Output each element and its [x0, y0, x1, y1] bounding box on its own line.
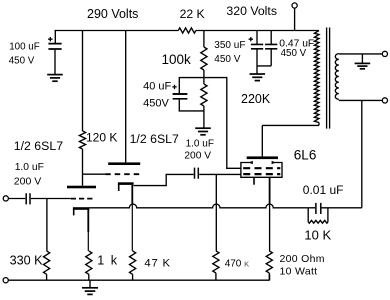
- ground on secondary: [355, 54, 371, 69]
- triode V1a cathode: [73, 207, 90, 215]
- svg-text:1/2 6SL7: 1/2 6SL7: [130, 132, 179, 146]
- wire T1 primary to V2 plate: [262, 124, 319, 126]
- svg-text:450 V: 450 V: [9, 56, 35, 67]
- capacitor C6 350uF 450V: [214, 31, 263, 66]
- resistor 470K (6L6 grid leak): [213, 174, 249, 280]
- svg-text:100 uF: 100 uF: [9, 42, 40, 53]
- terminal speaker -: [382, 98, 387, 103]
- terminal B+ input: [292, 3, 297, 31]
- wire feedback to V1a cathode (with hops): [89, 204, 308, 208]
- svg-text:1 k: 1 k: [97, 254, 118, 268]
- svg-text:330 K: 330 K: [10, 254, 44, 268]
- wire input to C2: [8, 198, 25, 200]
- beam tube V2 cathode stub: [253, 177, 255, 184]
- triode V1a plate: [67, 186, 96, 189]
- svg-text:1/2 6SL7: 1/2 6SL7: [14, 139, 63, 153]
- terminal speaker +: [382, 51, 387, 56]
- wire screen feed to 6L6: [204, 78, 241, 169]
- svg-text:40 uF: 40 uF: [143, 80, 171, 92]
- svg-text:22 K: 22 K: [180, 7, 205, 21]
- node label 290 Volts: [87, 7, 138, 21]
- svg-text:320 Volts: 320 Volts: [226, 4, 277, 18]
- svg-text:1.0 uF: 1.0 uF: [186, 138, 214, 149]
- wire secondary to feedback network: [322, 100, 362, 207]
- resistor 200 Ohm 10 Watt (V2 cathode): [266, 251, 325, 280]
- transformer T1 core: [327, 28, 330, 129]
- wire feedback network left: [308, 207, 315, 209]
- svg-text:0.01 uF: 0.01 uF: [303, 183, 344, 197]
- svg-text:120 K: 120 K: [86, 130, 117, 144]
- ground under C6/C7: [250, 74, 266, 81]
- capacitor C7 0.47uF 450V: [265, 31, 314, 66]
- beam tube V2 screen grid: [243, 167, 280, 169]
- resistor 120K: [79, 31, 117, 186]
- terminal audio input: [3, 196, 8, 201]
- capacitor C1 100uF 450V: [9, 31, 62, 75]
- resistor 100k (screen divider upper): [162, 31, 208, 78]
- svg-text:10 Watt: 10 Watt: [280, 265, 318, 277]
- triode V1b plate: [108, 162, 140, 165]
- triode V1a grid: [71, 198, 96, 200]
- svg-text:6L6: 6L6: [294, 148, 317, 163]
- svg-text:47 K: 47 K: [144, 257, 170, 269]
- svg-text:200 Ohm: 200 Ohm: [280, 253, 325, 265]
- wire C6/C7 join to ground: [257, 66, 271, 74]
- svg-text:450 V: 450 V: [214, 54, 240, 65]
- capacitor C8 0.01uF (feedback): [303, 183, 344, 214]
- ground under C1: [47, 75, 63, 82]
- svg-text:200 V: 200 V: [184, 151, 211, 162]
- wire V1a plate to V1b grid: [82, 173, 105, 175]
- wire V1b cathode to C5: [134, 174, 194, 185]
- svg-text:290 Volts: 290 Volts: [87, 7, 138, 21]
- svg-text:450V: 450V: [143, 97, 169, 109]
- svg-text:200 V: 200 V: [14, 176, 41, 188]
- label tube V1a 1/2 6SL7: [14, 139, 63, 153]
- capacitor C5 1.0uF 200V (output coupling): [184, 138, 214, 179]
- transformer T1 primary winding: [314, 31, 319, 126]
- svg-text:450 V: 450 V: [281, 48, 307, 59]
- triode V1b grid: [105, 173, 139, 175]
- label tube V1b 1/2 6SL7: [130, 132, 179, 146]
- svg-text:350 uF: 350 uF: [214, 40, 245, 51]
- triode V1b cathode: [118, 182, 134, 191]
- resistor 220K (screen divider lower): [201, 78, 271, 128]
- beam tube V2 control grid: [243, 173, 280, 175]
- ground on bottom rail: [82, 280, 98, 294]
- terminal input ground: [3, 278, 8, 283]
- svg-text:1.0 uF: 1.0 uF: [15, 162, 44, 173]
- wire B+ rail (290V/320V): [55, 30, 320, 32]
- resistor 22K: [178, 7, 204, 33]
- ground under 220K: [195, 128, 211, 135]
- wire V2 cathode down: [269, 177, 271, 251]
- capacitor C4 40uF 450V (screen bypass): [143, 78, 204, 111]
- capacitor C2 1.0uF 200V (input coupling): [14, 162, 44, 205]
- transformer T1 secondary winding: [335, 54, 339, 100]
- wire C5 to 6L6 grid: [199, 173, 241, 175]
- wire T1 secondary top to speaker terminal: [339, 53, 383, 55]
- svg-text:100k: 100k: [162, 52, 192, 67]
- node label 320 Volts: [226, 4, 277, 18]
- beam tube V2 beam plates: [241, 161, 282, 178]
- resistor 47K (V1b cathode): [130, 185, 171, 280]
- wire ground bus (bottom rail): [8, 274, 269, 280]
- label tube V2 6L6: [294, 148, 317, 163]
- resistor 1k (V1a cathode): [86, 210, 119, 281]
- resistor 10K (feedback): [304, 208, 331, 243]
- resistor 330K (grid leak): [10, 199, 50, 281]
- wire 290V rail to V1b plate: [125, 31, 127, 163]
- svg-text:10 K: 10 K: [304, 228, 331, 243]
- beam tube V2 plate: [247, 125, 278, 159]
- svg-text:470 K: 470 K: [225, 258, 249, 269]
- wire T1 secondary bottom to speaker terminal: [339, 99, 383, 101]
- svg-text:220K: 220K: [241, 92, 271, 106]
- wire C2 to V1a grid: [31, 198, 71, 200]
